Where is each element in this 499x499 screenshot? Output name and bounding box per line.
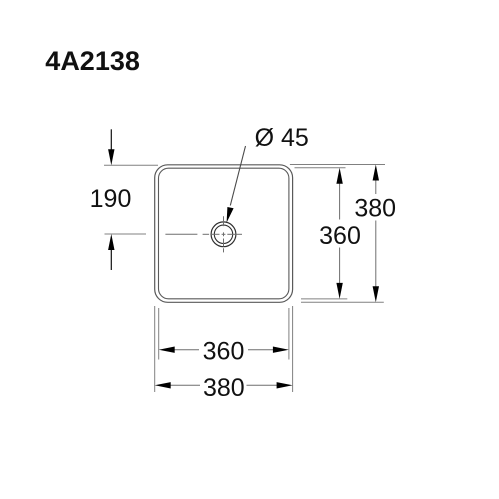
leader line for diameter 45 [230, 146, 245, 206]
extension line bottom-right outer vertical [292, 306, 294, 392]
drain hole outer circle [211, 222, 236, 247]
dimension 190 upper arrow [110, 129, 112, 150]
svg-text:Ø 45: Ø 45 [255, 124, 309, 152]
basin outer outline [155, 165, 293, 302]
extension line top-right inner [295, 167, 346, 169]
dimension line right 360 [339, 182, 341, 284]
svg-text:4A2138: 4A2138 [45, 46, 140, 76]
svg-text:380: 380 [203, 374, 245, 402]
drain centerline vertical [223, 216, 225, 252]
svg-text:380: 380 [354, 195, 396, 223]
extension line top-right outer [290, 164, 385, 166]
extension line mid-left (drain center) [105, 233, 147, 235]
dimension 190 lower arrow [110, 250, 112, 270]
svg-text:360: 360 [319, 222, 361, 250]
dimension line bottom 380 [169, 384, 279, 386]
drain centerline horizontal [165, 233, 242, 235]
extension line bottom-right inner [301, 298, 347, 300]
extension line bottom-right inner vertical [288, 308, 290, 360]
dimension line bottom 360 [173, 349, 275, 351]
basin inner outline [159, 168, 289, 299]
extension line bottom-right outer [301, 301, 384, 303]
extension line top-left (outer top edge) [104, 164, 158, 166]
svg-text:190: 190 [90, 185, 132, 213]
dimension line right 380 [375, 179, 377, 288]
leader arrowhead [227, 207, 234, 223]
svg-text:360: 360 [203, 338, 245, 366]
extension line bottom-left outer vertical [154, 306, 156, 392]
drain hole inner circle [214, 225, 232, 243]
extension line bottom-left inner vertical [158, 308, 160, 360]
